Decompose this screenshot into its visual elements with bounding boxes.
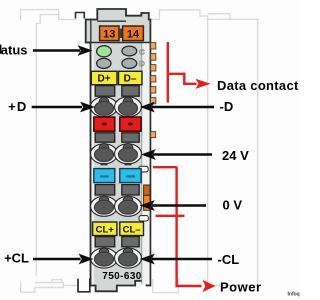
svg-text:-D: -D bbox=[220, 99, 234, 114]
top-left interlock hook bbox=[76, 13, 85, 19]
svg-text:CL–: CL– bbox=[123, 225, 141, 236]
svg-text:+CL: +CL bbox=[4, 251, 29, 266]
svg-text:D: D bbox=[139, 59, 145, 68]
red data-contact callout bbox=[168, 42, 197, 103]
push button A right bbox=[122, 86, 139, 97]
svg-text:Data contact: Data contact bbox=[217, 78, 299, 93]
orange locking lever bbox=[144, 185, 150, 210]
push button D right bbox=[122, 237, 139, 247]
red terminal cover left bbox=[94, 117, 115, 131]
status label t-sliver at canvas edge bbox=[0, 45, 1, 54]
bottom-left interlock hook bbox=[78, 279, 90, 292]
LED row2 right gray bbox=[122, 58, 137, 68]
svg-text:C: C bbox=[139, 47, 145, 56]
svg-text:atus: atus bbox=[1, 43, 28, 58]
svg-text:D–: D– bbox=[124, 74, 137, 85]
red terminal cover right bbox=[120, 117, 141, 131]
status LED green bbox=[97, 46, 112, 57]
push button B left bbox=[95, 133, 115, 142]
clamp opening row3 0V bbox=[91, 196, 142, 216]
arrow 24V bbox=[141, 149, 212, 160]
hump bottom edge bbox=[97, 20, 126, 22]
data contacts (side, gold) bbox=[151, 43, 156, 138]
arrow status bbox=[33, 45, 93, 56]
svg-text:CL+: CL+ bbox=[96, 225, 115, 236]
blue terminal cover left bbox=[94, 169, 115, 183]
clamp opening row2 24V bbox=[91, 144, 142, 166]
push button C left bbox=[95, 185, 115, 195]
label CL- bbox=[120, 222, 144, 236]
svg-text:+D: +D bbox=[8, 99, 27, 114]
svg-text:Infoq: Infoq bbox=[288, 292, 300, 298]
connector between labels bbox=[119, 29, 123, 38]
red power callout bbox=[153, 167, 202, 287]
label CL+ bbox=[93, 222, 117, 236]
arrow 0V bbox=[140, 200, 206, 211]
clamp opening row4 +CL/-CL bbox=[91, 248, 142, 268]
svg-text:Power: Power bbox=[220, 280, 262, 295]
arrow -D bbox=[140, 102, 214, 113]
svg-text:-CL: -CL bbox=[218, 252, 240, 267]
latch 2 bbox=[139, 216, 148, 221]
latch 1 bbox=[139, 166, 148, 172]
push button C right bbox=[122, 185, 139, 195]
arrow +CL bbox=[33, 254, 94, 265]
blue terminal cover right bbox=[120, 169, 141, 183]
label D+ bbox=[91, 71, 117, 84]
svg-text:13: 13 bbox=[103, 28, 115, 40]
marking label 13 bbox=[100, 26, 119, 41]
push button A left bbox=[95, 86, 115, 97]
push button B right bbox=[122, 133, 139, 142]
module body 750-630 outline bbox=[86, 9, 151, 291]
svg-text:24 V: 24 V bbox=[222, 148, 249, 163]
left neighbour module outline (faded) bbox=[21, 10, 59, 24]
inner light strips bbox=[92, 43, 94, 284]
marking label 14 bbox=[123, 26, 144, 41]
collar divider line bbox=[86, 42, 151, 44]
right neighbour module outline (faded) bbox=[152, 10, 208, 20]
svg-text:0 V: 0 V bbox=[223, 198, 243, 213]
svg-text:750-630: 750-630 bbox=[102, 271, 142, 282]
svg-text:D+: D+ bbox=[97, 74, 110, 85]
clamp opening row1 +D/-D bbox=[91, 97, 142, 119]
label D- bbox=[119, 71, 143, 84]
push button D left bbox=[95, 237, 115, 247]
arrow +D bbox=[32, 102, 95, 113]
svg-text:14: 14 bbox=[127, 28, 140, 40]
collar inner line bbox=[90, 20, 92, 42]
arrow -CL bbox=[140, 254, 212, 265]
LED row2 left gray bbox=[97, 58, 111, 68]
LED row1 right gray bbox=[122, 46, 137, 56]
